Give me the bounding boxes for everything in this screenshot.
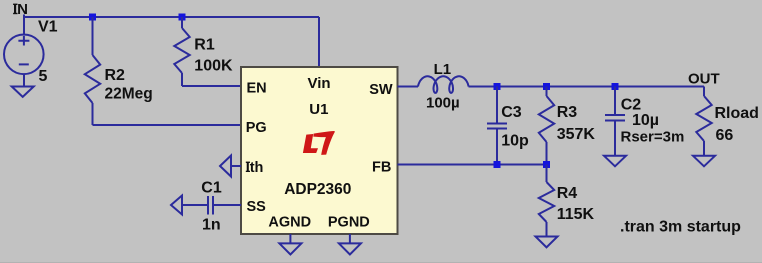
svg-text:ADP2360: ADP2360 [284,181,351,198]
svg-text:R2: R2 [105,67,126,84]
node junction C2 top [612,83,619,90]
wire Vin drop to IC [318,17,320,67]
wire R2 top lead [92,17,94,55]
svg-text:Vin: Vin [308,75,331,92]
IN serif bars [13,4,17,5]
wire R4 bottom lead [546,222,548,237]
svg-text:V1: V1 [38,19,58,36]
wire L1 to OUT corner [469,86,705,88]
wire R4 top lead [546,165,548,183]
svg-text:C1: C1 [201,180,222,197]
resistor R4 zigzag [539,182,554,222]
op-amp U1 IC body ADP2360 [241,67,398,234]
wire top rail IN to Vin [24,16,319,18]
node junction rail/R2 [89,14,96,21]
svg-text:C3: C3 [501,104,522,121]
wire R3 top lead [546,87,548,97]
wire OUT corner down [703,87,705,97]
resistor Rload zigzag [696,96,711,141]
wire R1 bottom lead [181,73,183,86]
svg-text:Rload: Rload [715,105,759,122]
inductor L1 [418,76,469,93]
wire C3 bottom lead [496,129,498,165]
svg-text:22Meg: 22Meg [105,86,153,103]
wire R2 to PG pin [93,124,242,126]
svg-text:.tran 3m startup: .tran 3m startup [620,219,741,236]
wire V1 bottom lead [23,74,25,87]
wire arrow to C1 [182,204,207,206]
ground below PGND [339,243,361,254]
wire R2 bottom lead [92,103,94,125]
svg-text:L1: L1 [434,61,452,78]
pin marker Ith arrow [220,156,231,177]
svg-text:357K: 357K [557,126,596,143]
node junction R3/R4 [543,161,550,168]
node junction L1/C3 [494,83,501,90]
ground below Rload [693,156,715,167]
svg-text:1n: 1n [202,216,221,233]
wire R3 bottom lead [546,142,548,165]
wire AGND stub [289,234,291,243]
svg-text:FB: FB [372,159,391,175]
V1 minus sign [19,63,29,65]
voltage source V1 circle [4,35,44,75]
ground below AGND [279,243,301,254]
capacitor C1 plates [208,196,213,215]
wire SW to L1 [398,86,419,88]
svg-text:R3: R3 [557,104,578,121]
ground below R4 [536,237,558,248]
capacitor C3 plates [487,124,507,129]
svg-text:SW: SW [369,82,393,98]
V1 plus sign [18,36,29,46]
resistor R3 zigzag [539,96,554,142]
pin marker C1 arrow [171,196,182,215]
capacitor C2 plates [605,115,625,121]
logo LT [303,131,335,155]
wire C3 top lead [496,87,498,124]
svg-text:U1: U1 [309,101,328,118]
wire C1 to SS pin [214,204,241,206]
svg-text:SS: SS [247,199,267,215]
svg-text:R1: R1 [194,36,215,53]
resistor R1 zigzag [174,28,189,73]
wire R1 top lead [181,17,183,28]
wire FB to divider [398,164,547,166]
wire V1 top lead [23,17,25,35]
svg-text:Rser=3m: Rser=3m [621,129,685,146]
wire C2 top lead [614,87,616,115]
svg-text:5: 5 [39,68,48,85]
svg-text:EN: EN [247,80,267,96]
resistor R2 zigzag [85,55,100,103]
wire IN stub [23,15,25,18]
svg-text:PGND: PGND [328,214,370,230]
node junction R3 top [543,83,550,90]
svg-text:66: 66 [716,127,734,144]
svg-text:AGND: AGND [268,214,311,230]
svg-text:100µ: 100µ [426,94,460,111]
svg-text:OUT: OUT [688,71,720,88]
svg-text:100K: 100K [194,57,233,74]
node junction rail/R1 [179,14,186,21]
svg-text:10p: 10p [501,132,529,149]
wire R1 to EN pin [182,85,241,87]
wire Rload bottom lead [703,141,705,156]
wire C2 bottom lead [614,122,616,156]
svg-text:PG: PG [246,120,267,136]
node junction C3 bottom [494,161,501,168]
Ith serif bars [246,162,250,163]
svg-text:115K: 115K [557,206,595,223]
wire PGND stub [349,234,351,243]
svg-text:10µ: 10µ [632,112,659,129]
bottom edge shading [0,262,762,263]
ground below V1 [12,87,34,97]
svg-text:R4: R4 [557,185,578,202]
wire Ith arrow to pin [231,165,241,167]
ground below C2 [604,156,626,167]
